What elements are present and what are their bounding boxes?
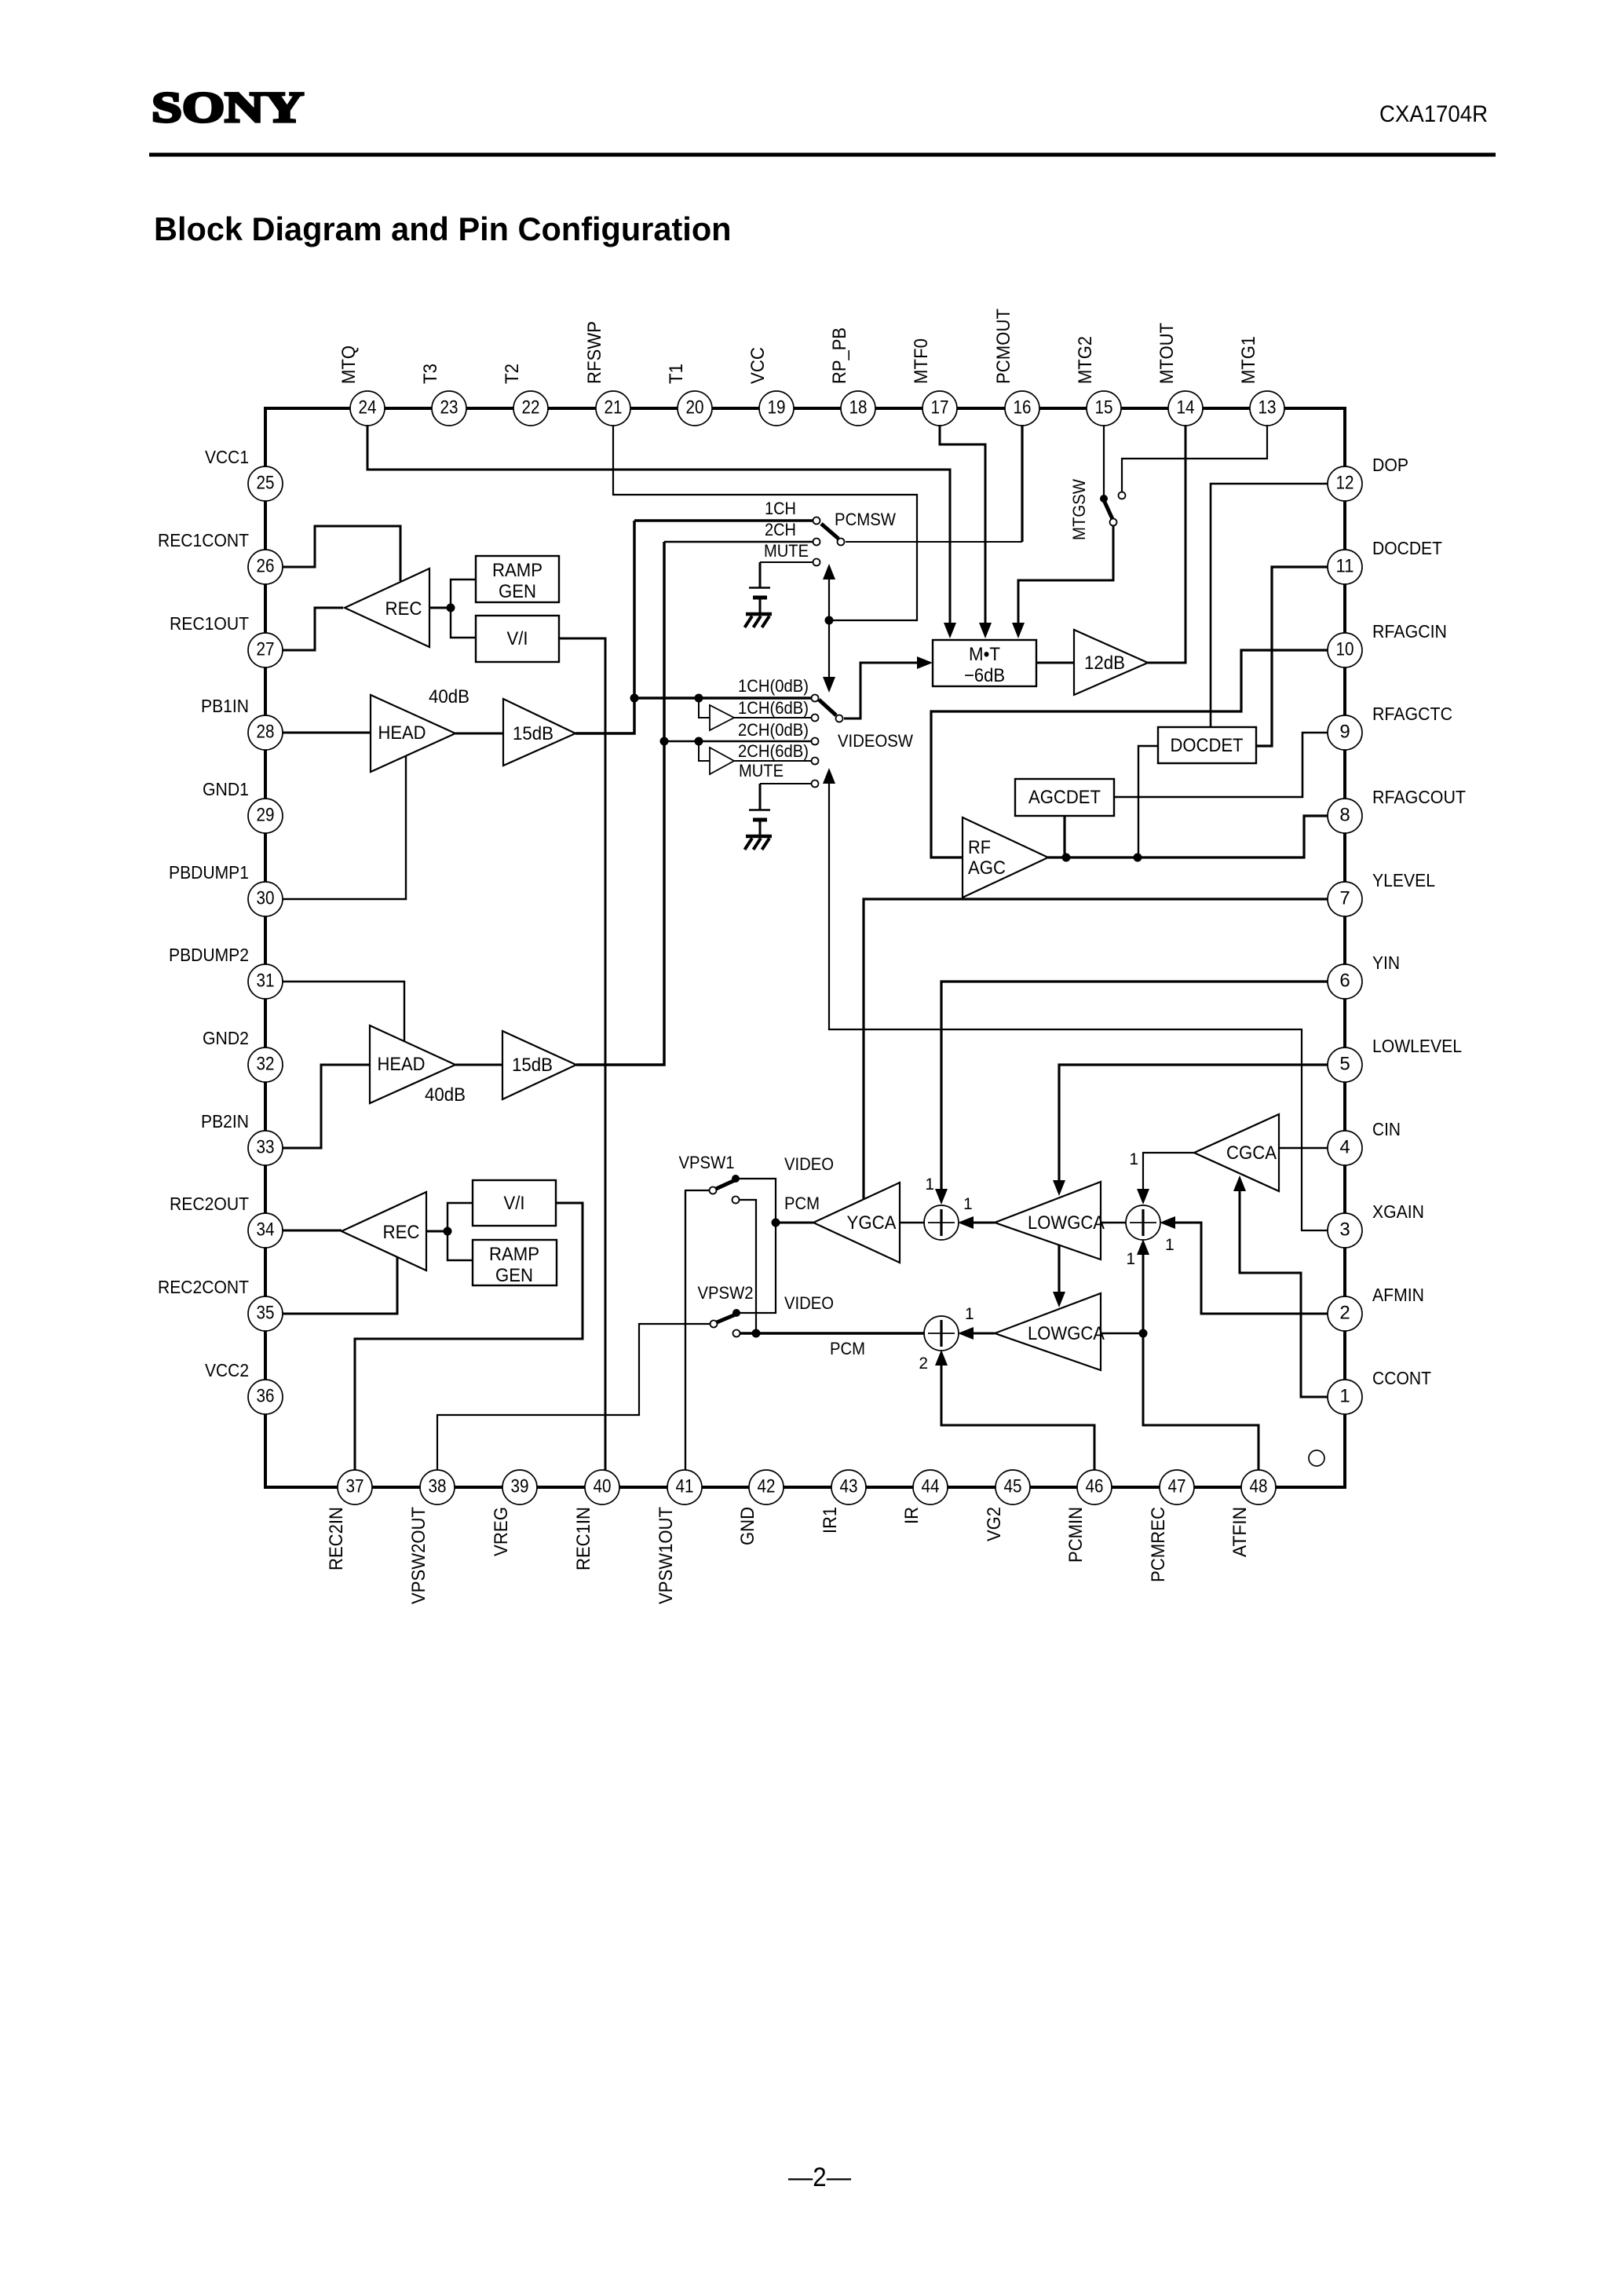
- wire VPSW1 pole to pin41: [685, 1190, 710, 1471]
- svg-text:15dB: 15dB: [512, 1055, 553, 1076]
- svg-text:PBDUMP1: PBDUMP1: [169, 862, 249, 883]
- pin 41 VPSW1OUT: [656, 1470, 702, 1604]
- label 1CH(0dB): [738, 676, 809, 696]
- svg-text:HEAD: HEAD: [378, 722, 426, 744]
- svg-text:12dB: 12dB: [1084, 653, 1125, 674]
- svg-text:REC1OUT: REC1OUT: [170, 613, 249, 634]
- pin 10 RFAGCIN: [1328, 621, 1447, 667]
- wire pin15 to MTGSW: [1103, 425, 1105, 496]
- pin 4 CIN: [1328, 1119, 1401, 1165]
- label 1 adder1 top: [925, 1175, 934, 1194]
- label VPSW2: [698, 1283, 754, 1303]
- pin 45 VG2: [984, 1470, 1030, 1541]
- wire to V-I 1: [451, 608, 476, 638]
- pin 23 T3: [420, 364, 466, 426]
- svg-text:VCC: VCC: [747, 347, 769, 384]
- node AGCDET agc line: [1062, 854, 1071, 862]
- svg-text:REC1IN: REC1IN: [573, 1507, 594, 1570]
- label 2CH(6dB): [738, 741, 809, 761]
- svg-text:VPSW2OUT: VPSW2OUT: [408, 1507, 429, 1604]
- wire pin12 to DOCDET top: [1211, 484, 1328, 727]
- amp 15dB 2: [502, 1031, 576, 1099]
- node 2CH0dB a: [660, 737, 669, 746]
- svg-text:MTQ: MTQ: [338, 345, 360, 384]
- svg-text:V/I: V/I: [504, 1193, 525, 1214]
- svg-text:41: 41: [676, 1476, 694, 1497]
- wire LOWGCA1 to adder1: [958, 1216, 995, 1229]
- svg-text:18: 18: [849, 397, 868, 419]
- block RAMP GEN 2: [473, 1240, 557, 1286]
- svg-text:MTOUT: MTOUT: [1156, 323, 1178, 384]
- IC outline bus: [265, 407, 1345, 1487]
- svg-text:RAMP: RAMP: [489, 1244, 539, 1265]
- svg-text:RFAGCOUT: RFAGCOUT: [1372, 787, 1466, 807]
- svg-text:GND1: GND1: [203, 779, 249, 799]
- wire to V-I 2: [448, 1203, 473, 1231]
- svg-text:37: 37: [346, 1476, 364, 1497]
- svg-text:T1: T1: [666, 364, 687, 384]
- svg-text:DOP: DOP: [1372, 455, 1408, 475]
- svg-text:9: 9: [1339, 722, 1350, 743]
- svg-text:22: 22: [522, 397, 540, 419]
- svg-text:YIN: YIN: [1372, 952, 1400, 973]
- svg-text:1: 1: [1126, 1250, 1135, 1268]
- svg-text:2CH: 2CH: [765, 520, 796, 539]
- wire pin34 to REC2: [282, 1230, 342, 1232]
- svg-text:PCM: PCM: [830, 1339, 865, 1358]
- svg-text:VCC1: VCC1: [205, 447, 249, 467]
- block DOCDET: [1158, 727, 1256, 763]
- pin 29 GND1: [203, 779, 283, 833]
- svg-text:MTGSW: MTGSW: [1069, 479, 1089, 540]
- wire pin30 HEAD1 feedback: [282, 756, 406, 899]
- svg-text:PCMIN: PCMIN: [1065, 1507, 1087, 1563]
- svg-text:IR: IR: [901, 1507, 922, 1524]
- svg-text:YGCA: YGCA: [847, 1212, 897, 1234]
- svg-text:REC2CONT: REC2CONT: [158, 1277, 249, 1297]
- wire pin6 YIN to adder1: [935, 982, 1328, 1205]
- svg-text:RP_PB: RP_PB: [829, 327, 850, 384]
- svg-text:3: 3: [1339, 1219, 1350, 1241]
- svg-text:RFAGCTC: RFAGCTC: [1372, 704, 1452, 724]
- amp LOWGCA 2: [995, 1293, 1105, 1370]
- PCMSW contact 1CH: [634, 517, 820, 525]
- wire pin35 to REC2: [282, 1257, 397, 1314]
- wire V-I 1 to pin 40: [559, 638, 605, 1471]
- PCMSW contact MUTE: [760, 559, 820, 566]
- svg-text:44: 44: [922, 1476, 940, 1497]
- pin 40 REC1IN: [573, 1470, 619, 1570]
- pin 15 MTG2: [1075, 336, 1121, 426]
- wire M-T to 12dB: [1036, 662, 1074, 664]
- svg-text:T2: T2: [502, 364, 523, 384]
- VIDEOSW gang shaft to pin3 net: [823, 768, 1328, 1230]
- svg-text:VPSW1OUT: VPSW1OUT: [656, 1507, 677, 1604]
- label VIDEO vpsw2: [784, 1293, 834, 1313]
- svg-text:PB1IN: PB1IN: [201, 696, 249, 716]
- pin 21 RFSWP: [584, 321, 630, 426]
- svg-text:30: 30: [257, 888, 275, 909]
- svg-text:1: 1: [1129, 1150, 1138, 1168]
- svg-text:T3: T3: [420, 364, 441, 384]
- svg-text:−6dB: −6dB: [964, 665, 1005, 686]
- node REC2 out: [444, 1227, 452, 1236]
- svg-text:RF: RF: [968, 837, 991, 858]
- svg-text:PCMOUT: PCMOUT: [993, 309, 1014, 384]
- SONY logo: [152, 83, 304, 131]
- svg-text:12: 12: [1336, 473, 1354, 494]
- IC orientation mark: [1309, 1450, 1324, 1466]
- svg-text:1: 1: [965, 1305, 974, 1323]
- svg-text:PBDUMP2: PBDUMP2: [169, 945, 249, 965]
- block AGCDET: [1015, 779, 1114, 816]
- svg-text:VREG: VREG: [491, 1507, 512, 1556]
- node 1CH0dB: [630, 694, 639, 703]
- wire pin5 LOWLEVEL to LOWGCA1: [1053, 1065, 1328, 1196]
- svg-text:33: 33: [257, 1137, 275, 1158]
- svg-text:GEN: GEN: [495, 1265, 533, 1286]
- svg-text:CGCA: CGCA: [1226, 1143, 1277, 1164]
- VPSW2 pcm contact: [733, 1330, 740, 1337]
- svg-text:DOCDET: DOCDET: [1171, 735, 1244, 756]
- wire pin13 to MTGSW contact: [1122, 425, 1267, 492]
- VPSW1 pcm contact: [732, 1197, 757, 1331]
- label 1 adder1 right: [963, 1195, 973, 1213]
- wire MTGSW to M-T block: [1012, 526, 1113, 638]
- svg-text:42: 42: [758, 1476, 776, 1497]
- svg-text:5: 5: [1339, 1054, 1350, 1075]
- svg-text:2CH(6dB): 2CH(6dB): [738, 741, 809, 761]
- node LOWGCA2 input: [1139, 1329, 1148, 1338]
- label 1CH(6dB): [738, 698, 809, 718]
- svg-text:REC: REC: [383, 1222, 420, 1243]
- svg-text:1: 1: [963, 1195, 973, 1213]
- node PCM line: [752, 1329, 761, 1338]
- VPSW2 lever: [711, 1314, 736, 1328]
- wire pin11 to DOCDET: [1256, 567, 1328, 746]
- wire pin10 to RF AGC input: [931, 650, 1328, 857]
- amp HEAD2: [370, 1026, 455, 1103]
- svg-text:MTG2: MTG2: [1075, 336, 1096, 384]
- VIDEOSW line 2CH(0dB): [664, 738, 819, 745]
- svg-text:Block Diagram and Pin Configur: Block Diagram and Pin Configuration: [154, 210, 732, 247]
- label 2CH(0dB): [738, 720, 809, 740]
- label PCM vpsw1: [784, 1194, 820, 1213]
- label 1 adder3 right: [1165, 1236, 1174, 1254]
- amp CGCA: [1194, 1114, 1279, 1191]
- wire pin7 YLEVEL to YGCA: [864, 899, 1328, 1199]
- amp RF AGC: [963, 817, 1048, 898]
- pin 22 T2: [502, 364, 548, 426]
- wire PCM line to adder2: [740, 1332, 925, 1335]
- wire pin24 to M-T block: [367, 425, 956, 638]
- wire V-I 2 to pin 37: [355, 1203, 583, 1471]
- svg-text:28: 28: [257, 722, 275, 743]
- pin 31 PBDUMP2: [169, 945, 283, 999]
- wire LOWGCA2 to adder2: [958, 1327, 995, 1340]
- svg-text:GND: GND: [737, 1507, 758, 1545]
- svg-text:LOWGCA: LOWGCA: [1028, 1212, 1105, 1234]
- svg-text:24: 24: [359, 397, 377, 419]
- wire pin26 to REC1: [282, 526, 400, 581]
- svg-text:LOWGCA: LOWGCA: [1028, 1323, 1105, 1344]
- svg-text:1: 1: [925, 1175, 934, 1194]
- section title: [154, 210, 732, 247]
- svg-text:SONY: SONY: [152, 83, 304, 131]
- pin 35 REC2CONT: [158, 1277, 283, 1331]
- pin 39 VREG: [491, 1470, 537, 1556]
- pin 32 GND2: [203, 1028, 283, 1082]
- svg-text:25: 25: [257, 473, 275, 494]
- pin 17 MTF0: [911, 338, 957, 426]
- pin 5 LOWLEVEL: [1328, 1036, 1462, 1082]
- svg-text:2: 2: [1339, 1303, 1350, 1324]
- wire pin16 to PCMSW pole: [846, 425, 1022, 542]
- wire pin21 RFSWP to switch shaft: [613, 425, 917, 620]
- pin 18 RP_PB: [829, 327, 875, 426]
- amp 1CH 6dB: [710, 705, 734, 730]
- svg-text:38: 38: [429, 1476, 447, 1497]
- pin 42 GND: [737, 1470, 784, 1545]
- PCMSW pole: [821, 524, 845, 546]
- pin 43 IR1: [820, 1470, 866, 1534]
- pin 27 REC1OUT: [170, 613, 283, 667]
- ground videosw cap: [745, 836, 773, 850]
- header rule: [149, 153, 1496, 157]
- pin 20 T1: [666, 364, 712, 426]
- MTGSW switch: [1100, 492, 1126, 526]
- svg-text:46: 46: [1086, 1476, 1104, 1497]
- label 2 adder2 bottom: [919, 1355, 928, 1373]
- svg-text:20: 20: [686, 397, 704, 419]
- pin 36 VCC2: [205, 1360, 283, 1414]
- wire pin41 riser bottom: [685, 1190, 686, 1471]
- wire pin17 to M-T block: [940, 425, 992, 638]
- label MUTE videosw: [739, 761, 784, 781]
- svg-text:7: 7: [1339, 888, 1350, 909]
- wire VPSW2 pole to pin38: [437, 1324, 711, 1471]
- pin 8 RFAGCOUT: [1328, 787, 1466, 833]
- svg-text:CCONT: CCONT: [1372, 1368, 1431, 1388]
- pin 30 PBDUMP1: [169, 862, 283, 916]
- svg-text:27: 27: [257, 639, 275, 660]
- svg-text:8: 8: [1339, 805, 1350, 826]
- pin 7 YLEVEL: [1328, 870, 1435, 916]
- pin 3 XGAIN: [1328, 1201, 1424, 1248]
- svg-text:10: 10: [1336, 639, 1354, 660]
- wire pin48 ATFIN to LOWGCA2 input: [1143, 1333, 1259, 1471]
- svg-text:14: 14: [1177, 397, 1195, 419]
- wire to RAMP GEN 2: [448, 1231, 473, 1260]
- svg-text:REC2IN: REC2IN: [326, 1507, 347, 1570]
- pin 14 MTOUT: [1156, 323, 1203, 426]
- wire pin31 HEAD2 feedback: [282, 982, 404, 1041]
- op-amp REC1: [345, 569, 429, 647]
- node DOCDET agc line: [1134, 854, 1142, 862]
- pin 12 DOP: [1328, 455, 1408, 501]
- wire pin14 from 12dB: [1148, 425, 1185, 663]
- svg-text:1CH(6dB): 1CH(6dB): [738, 698, 809, 718]
- wire REC1 to V-I and RAMP: [429, 607, 451, 609]
- amp 12dB: [1074, 630, 1148, 695]
- pin 47 PCMREC: [1148, 1470, 1194, 1582]
- svg-text:LOWLEVEL: LOWLEVEL: [1372, 1036, 1462, 1056]
- svg-text:23: 23: [440, 397, 458, 419]
- svg-text:AGC: AGC: [968, 857, 1006, 879]
- wire HEAD1 to 15dB1: [455, 733, 503, 735]
- amp 2CH 6dB: [710, 748, 734, 774]
- VIDEOSW pole: [819, 700, 843, 722]
- svg-text:45: 45: [1004, 1476, 1022, 1497]
- svg-text:PCMREC: PCMREC: [1148, 1507, 1169, 1582]
- wire pin27 to REC1 output: [282, 608, 343, 650]
- svg-text:VG2: VG2: [984, 1507, 1005, 1541]
- block V/I 1: [476, 616, 559, 662]
- wire adder1 to YGCA: [900, 1222, 925, 1224]
- amp LOWGCA 1: [995, 1182, 1105, 1260]
- wire YGCA out: [776, 1222, 813, 1224]
- svg-text:2: 2: [919, 1355, 928, 1373]
- pin 1 CCONT: [1328, 1368, 1431, 1414]
- node 1CH branch: [695, 694, 711, 718]
- svg-text:13: 13: [1259, 397, 1277, 419]
- pin 13 MTG1: [1238, 336, 1284, 426]
- amp YGCA: [813, 1183, 900, 1263]
- amp 15dB 1: [503, 699, 575, 766]
- svg-text:48: 48: [1250, 1476, 1268, 1497]
- svg-text:11: 11: [1336, 556, 1354, 577]
- pin 46 PCMIN: [1065, 1470, 1112, 1563]
- svg-text:MUTE: MUTE: [739, 761, 784, 781]
- svg-text:M•T: M•T: [969, 644, 1000, 665]
- svg-text:RAMP: RAMP: [492, 560, 542, 581]
- VIDEOSW line 1CH(6dB): [734, 715, 819, 722]
- pin 9 RFAGCTC: [1328, 704, 1452, 750]
- svg-text:1CH: 1CH: [765, 499, 796, 518]
- ground pcmsw cap: [745, 614, 773, 627]
- svg-text:36: 36: [257, 1386, 275, 1407]
- svg-text:VPSW2: VPSW2: [698, 1283, 754, 1303]
- label VPSW1: [679, 1153, 735, 1172]
- pin 28 PB1IN: [201, 696, 283, 750]
- svg-text:19: 19: [768, 397, 786, 419]
- pin 37 REC2IN: [326, 1470, 372, 1570]
- svg-text:MUTE: MUTE: [764, 541, 809, 561]
- svg-text:DOCDET: DOCDET: [1372, 538, 1442, 558]
- VPSW1 video contact: [732, 1175, 776, 1223]
- PCMSW label: [835, 510, 896, 529]
- svg-text:4: 4: [1339, 1137, 1350, 1158]
- node YGCA out: [772, 1219, 780, 1227]
- VPSW1 lever: [710, 1180, 736, 1194]
- adder 3: [1126, 1205, 1160, 1240]
- pin 16 PCMOUT: [993, 309, 1039, 426]
- pin 11 DOCDET: [1328, 538, 1442, 584]
- wire 15dB2 to 2CH lines: [576, 542, 664, 1065]
- wire HEAD2 to 15dB2: [455, 1064, 502, 1066]
- svg-text:15: 15: [1095, 397, 1113, 419]
- svg-text:39: 39: [511, 1476, 529, 1497]
- VIDEOSW mute capacitor: [749, 784, 770, 835]
- wire LOWGCA2 input: [1101, 1333, 1143, 1335]
- svg-text:GND2: GND2: [203, 1028, 249, 1048]
- wire REC2 out: [426, 1230, 448, 1233]
- label 1 adder2 right: [965, 1305, 974, 1323]
- VIDEOSW label: [838, 731, 913, 751]
- VPSW2 video contact: [732, 1223, 776, 1317]
- label MUTE pcmsw: [764, 541, 809, 561]
- wire pin4 CIN to CGCA: [1279, 1147, 1328, 1149]
- label 2CH: [765, 520, 796, 539]
- svg-text:21: 21: [605, 397, 623, 419]
- block RAMP GEN 1: [476, 556, 559, 602]
- svg-text:34: 34: [257, 1219, 275, 1241]
- adder 2: [924, 1316, 959, 1351]
- svg-text:VCC2: VCC2: [205, 1360, 249, 1380]
- amp HEAD1: [371, 695, 455, 772]
- svg-text:AFMIN: AFMIN: [1372, 1285, 1424, 1305]
- svg-text:RFSWP: RFSWP: [584, 321, 605, 384]
- svg-text:HEAD: HEAD: [378, 1054, 426, 1075]
- svg-text:REC: REC: [385, 598, 422, 620]
- pin 33 PB2IN: [201, 1111, 283, 1165]
- pin 6 YIN: [1328, 952, 1400, 999]
- svg-text:VIDEOSW: VIDEOSW: [838, 731, 913, 751]
- svg-text:CIN: CIN: [1372, 1119, 1401, 1139]
- wire pin1 CCONT to CGCA: [1233, 1175, 1328, 1397]
- svg-text:47: 47: [1168, 1476, 1186, 1497]
- wire pin2 AFMIN to adder3: [1160, 1216, 1328, 1314]
- op-amp REC2: [342, 1192, 426, 1270]
- wire adder3 bottom: [1137, 1239, 1149, 1333]
- wire pin46 PCMIN to adder2: [935, 1350, 1094, 1471]
- PCMSW contact 2CH: [664, 539, 820, 546]
- wire 15dB1 to 1CH lines: [575, 521, 634, 733]
- svg-text:REC1CONT: REC1CONT: [158, 530, 249, 550]
- svg-text:1CH(0dB): 1CH(0dB): [738, 676, 809, 696]
- pin 24 MTQ: [338, 345, 385, 426]
- svg-text:GEN: GEN: [499, 581, 536, 602]
- svg-text:AGCDET: AGCDET: [1028, 787, 1101, 808]
- pin 19 VCC: [747, 347, 794, 426]
- svg-text:1: 1: [1165, 1236, 1174, 1254]
- label VIDEO vpsw1: [784, 1154, 834, 1174]
- wire LOWGCA1 to LOWGCA2: [1053, 1245, 1065, 1307]
- node REC1 out: [447, 604, 455, 612]
- block V/I 2: [473, 1180, 556, 1226]
- label 1CH: [765, 499, 796, 518]
- wire CGCA out to adder3: [1137, 1153, 1194, 1205]
- svg-text:REC2OUT: REC2OUT: [170, 1194, 249, 1214]
- svg-text:31: 31: [257, 971, 275, 992]
- PCMSW mute capacitor: [749, 562, 770, 613]
- svg-text:2CH(0dB): 2CH(0dB): [738, 720, 809, 740]
- pin 48 ATFIN: [1229, 1470, 1276, 1557]
- svg-text:YLEVEL: YLEVEL: [1372, 870, 1435, 890]
- svg-text:VIDEO: VIDEO: [784, 1293, 834, 1313]
- svg-text:PCM: PCM: [784, 1194, 820, 1213]
- svg-text:—2—: —2—: [788, 2163, 851, 2192]
- svg-text:35: 35: [257, 1303, 275, 1324]
- svg-text:VIDEO: VIDEO: [784, 1154, 834, 1174]
- svg-text:1: 1: [1339, 1386, 1350, 1407]
- wire pin9 to AGCDET: [1114, 733, 1328, 797]
- svg-text:43: 43: [840, 1476, 858, 1497]
- svg-text:40dB: 40dB: [429, 686, 469, 707]
- svg-text:26: 26: [257, 556, 275, 577]
- pin 38 VPSW2OUT: [408, 1470, 455, 1604]
- wire pin33 to HEAD2: [282, 1065, 370, 1148]
